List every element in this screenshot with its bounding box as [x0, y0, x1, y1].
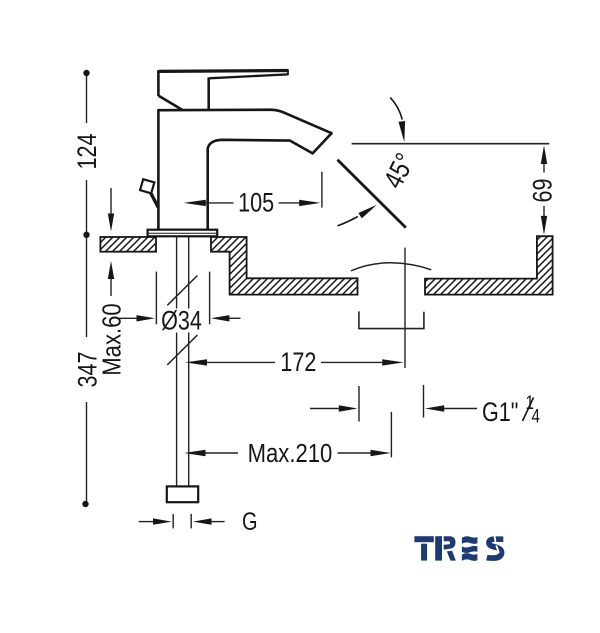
countertop + basin step (hatched Z): [211, 237, 358, 295]
dimension Max.210: [184, 450, 206, 456]
pipe break slash lower: [167, 335, 197, 365]
handle lever top: [158, 69, 288, 73]
basin break curve: [351, 263, 431, 271]
svg-text:Max.60: Max.60: [98, 303, 127, 375]
side pop-up lever rod: [151, 193, 159, 208]
dimension 172: [185, 359, 207, 365]
faucet body and spout outline: [158, 110, 331, 230]
basin bottom right + wall (hatched L): [425, 236, 553, 294]
svg-text:69: 69: [528, 178, 558, 202]
G thread end block: [167, 486, 198, 502]
svg-text:105: 105: [238, 188, 274, 218]
logo R stem: [435, 536, 442, 560]
base plate: [148, 230, 218, 237]
dimension 105: [321, 172, 323, 208]
countertop left slab (hatched): [100, 237, 156, 252]
supply pipe left edge: [176, 237, 178, 487]
svg-text:G: G: [242, 508, 258, 536]
handle cap left edge: [157, 70, 160, 96]
dot bottom: [82, 501, 88, 507]
lever underside: [209, 74, 288, 78]
dot deck level: [83, 232, 89, 238]
handle pivot front edge: [207, 78, 210, 111]
logo T bar: [414, 536, 433, 542]
logo R leg: [447, 551, 456, 561]
Max.60 dimension column: [110, 188, 112, 296]
logo E wave 3: [462, 553, 478, 561]
left overall dimension line 124/347: [86, 75, 88, 501]
logo E wave 2: [462, 546, 478, 553]
drain bracket: [359, 311, 424, 328]
TRES logo: [414, 536, 477, 561]
logo S: [487, 539, 504, 558]
pipe break slash upper: [167, 276, 197, 306]
lever tip end cap: [287, 70, 289, 76]
dimension G: [139, 521, 154, 523]
svg-text:Max.210: Max.210: [248, 439, 333, 468]
logo R bowl: [444, 536, 456, 549]
logo S stencil gaps: [494, 536, 500, 554]
dimension G1 1/4: [310, 385, 477, 422]
dimension Ø34: [119, 272, 241, 325]
spout reference line: [352, 143, 550, 145]
lower leader arc: [338, 217, 358, 226]
svg-text:124: 124: [73, 133, 103, 169]
svg-text:Ø34: Ø34: [161, 306, 202, 336]
svg-text:4: 4: [532, 405, 541, 427]
logo E wave 1: [462, 536, 478, 544]
supply pipe right edge: [188, 237, 190, 487]
side pop-up lever knob (tilted square): [140, 179, 154, 193]
stream landing centerline: [404, 248, 406, 368]
dimension 69: [543, 164, 545, 217]
logo T stem: [421, 544, 427, 561]
upper leader arc: [390, 98, 402, 120]
45 degree stream line: [338, 160, 406, 228]
svg-text:172: 172: [280, 348, 316, 378]
handle cap chamfer: [158, 96, 182, 110]
svg-text:G1": G1": [482, 398, 518, 428]
dot top: [83, 70, 89, 76]
